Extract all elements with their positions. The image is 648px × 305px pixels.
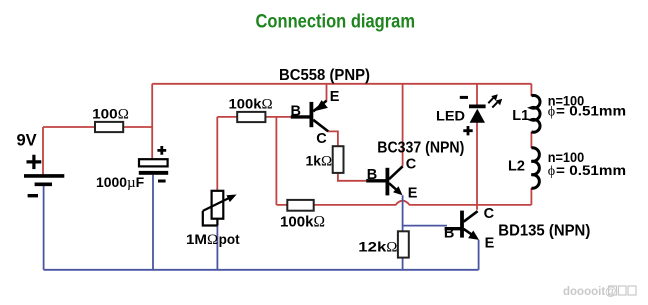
capacitor + sign	[157, 146, 166, 155]
wire pot bottom riser (blue)	[216, 226, 218, 270]
wire capacitor- riser (blue)	[152, 175, 154, 270]
svg-text:C: C	[406, 156, 417, 172]
wire BC337 emitter to BD135 base (blue)	[403, 225, 447, 227]
wire BC558 collector to 1k	[328, 131, 338, 146]
potentiometer RV1 1M box	[212, 191, 224, 219]
potentiometer wiper return wire	[203, 211, 218, 226]
svg-text:BC558 (PNP): BC558 (PNP)	[279, 67, 370, 84]
wire 1k bottom to BC337 base	[338, 173, 366, 181]
transistor Q1 BC558 bar	[309, 102, 313, 127]
transistor Q1 collector lead	[313, 120, 328, 132]
transistor Q2 BC337 bar	[385, 168, 389, 196]
svg-text:1kΩ: 1kΩ	[306, 153, 333, 170]
battery BT1 9V plates	[24, 176, 64, 184]
LED D1 triangle	[470, 109, 485, 123]
svg-text:C: C	[316, 131, 327, 147]
svg-text:B: B	[367, 167, 377, 183]
wire ground bus bottom (blue)	[44, 269, 479, 271]
transistor Q3 BD135 bar	[460, 211, 464, 238]
wire battery+ vertical drop	[42, 127, 44, 174]
svg-text:ϕ= 0.51mm: ϕ= 0.51mm	[548, 163, 626, 179]
wire L1 top stub	[530, 84, 532, 96]
wire BC337 emitter down through 12k (blue)	[402, 195, 404, 269]
capacitor - sign	[158, 180, 166, 183]
svg-text:E: E	[330, 89, 340, 105]
wire battery+ to 100ohm (red, node VBAT)	[43, 126, 95, 128]
transistor Q3 collector lead	[464, 211, 478, 222]
wire L2 bottom riser	[530, 188, 532, 205]
svg-text:100kΩ: 100kΩ	[229, 96, 273, 113]
inductor L1 coil	[531, 95, 540, 132]
wire pot top riser	[216, 117, 218, 191]
resistor R3 1k box vertical	[333, 146, 344, 173]
battery - sign	[28, 194, 38, 197]
transistor Q3 emitter lead with NPN arrow	[464, 229, 479, 240]
wire LED branch upper	[476, 84, 478, 105]
svg-text:100Ω: 100Ω	[92, 105, 129, 122]
wire BC558 base network horizontal	[217, 116, 291, 118]
wire BC337 collector riser	[402, 84, 404, 166]
wire LED anode down to BD135 collector	[476, 122, 478, 210]
svg-text:BC337 (NPN): BC337 (NPN)	[377, 140, 464, 157]
svg-text:C: C	[484, 206, 495, 222]
potentiometer wiper arrow	[203, 195, 237, 211]
LED light arrow 1	[488, 94, 498, 103]
wire L1-L2 link	[530, 132, 532, 148]
wire 100ohm to junction at x152	[123, 126, 152, 128]
svg-text:1MΩpot: 1MΩpot	[186, 231, 240, 248]
watermark	[563, 286, 636, 298]
LED - sign	[460, 96, 468, 99]
wire node junction vertical x276	[275, 117, 277, 205]
svg-text:E: E	[485, 235, 495, 251]
svg-text:B: B	[444, 226, 454, 242]
svg-text:B: B	[291, 103, 301, 119]
battery + sign	[27, 155, 42, 169]
transistor Q2 emitter lead with NPN arrow	[389, 183, 403, 195]
capacitor C1 plates	[139, 159, 168, 175]
LED light arrow 2	[492, 99, 502, 108]
wire riser x152 junction to top rail and down to capacitor +	[151, 84, 153, 159]
resistor R1 100ohm box	[95, 122, 123, 132]
svg-text:1000µF: 1000µF	[96, 174, 145, 191]
svg-text:L1: L1	[512, 108, 529, 124]
wire BD135 emitter riser (blue)	[478, 240, 480, 270]
wire battery- vertical (blue)	[43, 186, 45, 270]
wire lower red rail with hop over blue wire	[276, 201, 531, 205]
svg-text:L2: L2	[508, 158, 525, 174]
transistor Q1 base lead	[291, 115, 312, 118]
transistor Q2 collector lead	[389, 166, 403, 179]
svg-text:E: E	[408, 185, 418, 201]
resistor R5 12k box vertical	[398, 231, 409, 257]
transistor Q2 base lead	[366, 179, 387, 182]
transistor Q3 base lead	[445, 227, 462, 230]
wire top rail (red bus)	[152, 83, 531, 85]
svg-text:BD135 (NPN): BD135 (NPN)	[498, 223, 590, 240]
resistor R4 100k box lower	[287, 200, 313, 211]
LED D1 cathode bar	[469, 105, 486, 109]
svg-text:12kΩ: 12kΩ	[358, 238, 397, 255]
svg-text:ϕ= 0.51mm: ϕ= 0.51mm	[548, 104, 626, 120]
resistor R2 100k box	[237, 112, 265, 122]
svg-text:100kΩ: 100kΩ	[280, 214, 325, 231]
svg-text:Connection diagram: Connection diagram	[256, 12, 416, 33]
inductor L2 coil	[531, 148, 539, 188]
wire BC558 emitter stub	[326, 84, 328, 101]
svg-text:9V: 9V	[17, 131, 37, 149]
LED + sign	[463, 126, 472, 135]
transistor Q1 emitter lead with PNP arrow	[313, 100, 328, 111]
svg-text:LED: LED	[436, 107, 465, 123]
